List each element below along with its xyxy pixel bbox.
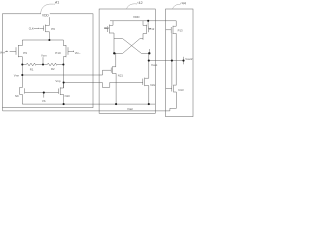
svg-text:N10: N10 bbox=[65, 94, 71, 98]
svg-text:P12: P12 bbox=[149, 27, 154, 31]
svg-text:41: 41 bbox=[55, 0, 59, 4]
svg-text:R1: R1 bbox=[30, 67, 34, 71]
svg-text:Vout2: Vout2 bbox=[185, 57, 193, 61]
svg-text:Vb: Vb bbox=[42, 99, 46, 103]
svg-text:P11: P11 bbox=[104, 26, 109, 30]
svg-text:R2: R2 bbox=[51, 67, 55, 71]
svg-text:N13: N13 bbox=[178, 88, 184, 92]
svg-text:Vout: Vout bbox=[151, 63, 157, 67]
svg-text:Vtail: Vtail bbox=[127, 107, 133, 111]
svg-text:44: 44 bbox=[182, 1, 186, 5]
svg-text:VDD: VDD bbox=[42, 14, 49, 18]
svg-text:P9: P9 bbox=[23, 51, 27, 55]
svg-text:N21: N21 bbox=[118, 73, 124, 77]
svg-text:42: 42 bbox=[138, 1, 142, 5]
svg-text:N22: N22 bbox=[150, 83, 156, 87]
svg-text:P10: P10 bbox=[55, 51, 61, 55]
svg-text:Vcm: Vcm bbox=[41, 54, 47, 58]
svg-text:P13: P13 bbox=[178, 28, 183, 32]
svg-text:Vne: Vne bbox=[14, 74, 20, 78]
svg-text:Vnp: Vnp bbox=[55, 79, 61, 83]
svg-text:CLK: CLK bbox=[29, 28, 34, 31]
svg-text:Vin+: Vin+ bbox=[0, 51, 6, 55]
svg-text:Vin−: Vin− bbox=[75, 51, 81, 55]
svg-text:N9: N9 bbox=[15, 94, 19, 98]
svg-text:P6: P6 bbox=[51, 27, 55, 31]
svg-text:VDD: VDD bbox=[133, 15, 140, 19]
